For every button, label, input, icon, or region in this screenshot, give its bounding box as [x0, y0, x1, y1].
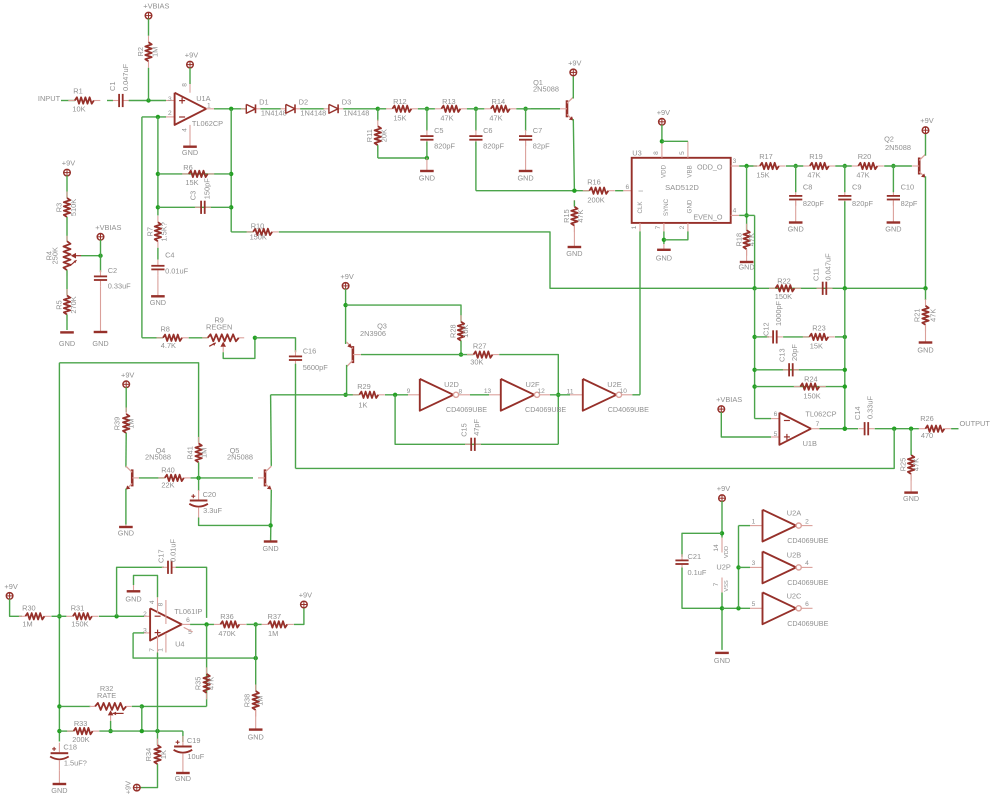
svg-text:U3: U3 [632, 148, 641, 157]
wire [139, 477, 165, 479]
IC U2P power pins [713, 538, 731, 593]
wire [755, 418, 771, 420]
wire [754, 288, 756, 418]
resistor R30 [19, 604, 51, 629]
wire [134, 575, 158, 597]
svg-text:C18: C18 [63, 743, 77, 752]
ground [788, 201, 804, 234]
svg-text:1000pF: 1000pF [774, 300, 783, 326]
power +9V [657, 108, 670, 125]
junction [343, 303, 347, 307]
svg-text:GND: GND [738, 263, 754, 272]
resistor R8 [157, 324, 189, 350]
svg-text:2N5088: 2N5088 [533, 85, 559, 94]
svg-text:U2P: U2P [716, 562, 730, 571]
pin 8 U3 [661, 141, 663, 158]
pin [623, 190, 631, 192]
wire [345, 289, 347, 344]
svg-text:R34: R34 [144, 748, 153, 762]
capacitor C13 [778, 344, 799, 377]
svg-text:GND: GND [656, 253, 672, 262]
capacitor C21 [675, 552, 706, 577]
junction [229, 172, 233, 176]
svg-text:47K: 47K [440, 113, 453, 122]
junction [146, 98, 150, 102]
power +9V [123, 781, 140, 794]
resistor R2 [136, 36, 159, 68]
power +9V [62, 159, 75, 176]
junction [474, 107, 478, 111]
svg-text:R23: R23 [812, 323, 826, 332]
junction [752, 384, 756, 388]
svg-text:+9V: +9V [920, 116, 933, 125]
svg-text:47K: 47K [856, 170, 869, 179]
power +9V [121, 370, 134, 387]
svg-text:GND: GND [125, 594, 141, 603]
svg-text:4: 4 [733, 208, 737, 215]
wire [214, 108, 246, 110]
pin 4 U3 [731, 214, 740, 216]
wire [117, 567, 164, 616]
svg-text:GND: GND [182, 148, 198, 157]
junction [57, 704, 61, 708]
junction [114, 614, 118, 618]
junction [196, 476, 200, 480]
wire [844, 201, 846, 288]
junction [662, 238, 666, 242]
svg-text:D3: D3 [342, 98, 351, 107]
capacitor C6 [469, 126, 504, 151]
svg-text:1M: 1M [199, 448, 208, 458]
capacitor C2 [94, 266, 131, 290]
junction [156, 115, 160, 119]
svg-text:0.33uF: 0.33uF [108, 281, 131, 290]
resistor R27 [467, 342, 499, 367]
svg-text:R31: R31 [71, 604, 85, 613]
svg-text:14: 14 [713, 544, 720, 552]
wire [157, 248, 159, 260]
resistor R6 [182, 163, 214, 187]
wire [279, 232, 755, 288]
pin 7 U3 [663, 223, 665, 232]
svg-text:1N4148: 1N4148 [300, 108, 326, 117]
svg-text:GND: GND [51, 786, 67, 795]
junction [892, 427, 896, 431]
wire [230, 109, 232, 232]
wire [378, 108, 386, 110]
wire [739, 566, 751, 568]
wire [100, 240, 102, 273]
pin 2 U3 [687, 223, 689, 232]
svg-text:GND: GND [788, 225, 804, 234]
svg-text:R40: R40 [161, 466, 175, 475]
pin [408, 394, 420, 396]
wire [255, 624, 257, 691]
svg-text:GND: GND [517, 174, 533, 183]
junction [459, 352, 463, 356]
wire [460, 341, 462, 355]
svg-text:1N4148: 1N4148 [261, 108, 287, 117]
power +9V [299, 591, 312, 608]
wire [158, 206, 231, 208]
svg-text:5: 5 [679, 151, 686, 155]
ground [903, 474, 919, 503]
svg-text:TL061IP: TL061IP [174, 607, 202, 616]
inverter U2B [763, 552, 802, 584]
junction [843, 286, 847, 290]
wire [133, 632, 144, 634]
wire [142, 705, 207, 707]
capacitor C15 [460, 418, 481, 450]
pin 4 [189, 125, 191, 139]
wire [475, 109, 477, 131]
resistor R5 [54, 289, 77, 321]
junction [108, 729, 112, 733]
resistor R20 [852, 152, 884, 179]
svg-text:1N4148: 1N4148 [344, 108, 370, 117]
wire [721, 501, 723, 538]
op-amp U1A [175, 93, 207, 125]
svg-text:C11: C11 [811, 268, 820, 281]
svg-text:7: 7 [149, 648, 156, 652]
wire [951, 428, 958, 430]
junction [57, 729, 61, 733]
svg-text:U2D: U2D [444, 380, 459, 389]
svg-text:+9V: +9V [717, 484, 730, 493]
svg-text:GND: GND [175, 774, 191, 783]
wire [157, 731, 159, 745]
svg-text:20pF: 20pF [790, 344, 799, 361]
svg-text:47K: 47K [929, 309, 938, 322]
pin 5 comp U4 [184, 627, 193, 632]
junction [425, 156, 429, 160]
capacitor C5 [420, 126, 455, 151]
wire [142, 116, 166, 118]
junction [572, 189, 576, 193]
ground [566, 226, 582, 258]
ground [738, 249, 754, 272]
svg-text:6: 6 [805, 601, 809, 608]
wire [66, 175, 68, 198]
junction [843, 368, 847, 372]
wire [377, 109, 379, 121]
wire [99, 730, 183, 732]
capacitor C9 [838, 183, 873, 208]
wire [59, 705, 90, 707]
svg-text:2N5088: 2N5088 [885, 143, 911, 152]
pin [750, 607, 763, 609]
junction [744, 213, 748, 217]
wire [844, 288, 846, 428]
wire [125, 387, 127, 412]
svg-text:GND: GND [419, 174, 435, 183]
svg-text:+VBIAS: +VBIAS [716, 395, 742, 404]
wire [884, 165, 912, 167]
wire [81, 255, 101, 257]
svg-text:0.01uF: 0.01uF [165, 267, 188, 276]
resistor R23 [803, 323, 835, 350]
wire [739, 165, 757, 167]
capacitor C4 [151, 250, 188, 275]
capacitor C19 [174, 736, 205, 764]
junction [204, 622, 208, 626]
capacitor C7 [519, 126, 550, 151]
svg-text:1M: 1M [256, 695, 265, 705]
resistor R12 [386, 97, 418, 122]
svg-text:2N5088: 2N5088 [227, 452, 253, 461]
pin [811, 428, 819, 430]
wire [754, 215, 756, 288]
wire [59, 363, 198, 443]
wire [499, 355, 558, 445]
svg-text:R27: R27 [473, 342, 487, 351]
ground [175, 764, 191, 784]
svg-text:1K: 1K [358, 400, 367, 409]
wire [755, 336, 769, 338]
transistor Q5 [227, 446, 271, 490]
resistor R7 [145, 216, 168, 248]
svg-text:+9V: +9V [121, 370, 134, 379]
svg-text:4: 4 [805, 560, 809, 567]
wire [470, 394, 489, 396]
svg-text:VDD: VDD [660, 164, 667, 178]
power +VBIAS [95, 223, 121, 240]
svg-text:C12: C12 [762, 322, 771, 336]
svg-text:3: 3 [733, 158, 737, 165]
capacitor C8 [789, 183, 824, 208]
svg-text:INPUT: INPUT [38, 94, 61, 103]
svg-text:R21: R21 [912, 309, 921, 323]
svg-text:R22: R22 [777, 277, 791, 286]
pin [750, 566, 763, 568]
junction [156, 172, 160, 176]
resistor R1 [68, 87, 100, 114]
junction [140, 704, 144, 708]
svg-text:EVEN_O: EVEN_O [693, 213, 723, 222]
svg-text:5: 5 [752, 601, 756, 608]
svg-text:R13: R13 [442, 97, 456, 106]
wire [59, 730, 73, 732]
wire [66, 217, 68, 241]
wire [795, 166, 797, 192]
svg-text:R16: R16 [587, 177, 601, 186]
svg-text:2N5088: 2N5088 [145, 452, 171, 461]
wire [107, 100, 113, 102]
svg-text:GND: GND [917, 345, 933, 354]
svg-text:CLK: CLK [637, 201, 644, 214]
svg-text:0.047uF: 0.047uF [121, 63, 130, 91]
wire [682, 568, 722, 609]
wire [786, 165, 803, 167]
inverter U2F [501, 379, 540, 411]
ground [150, 276, 166, 307]
wire [910, 429, 912, 455]
svg-text:270K: 270K [69, 296, 78, 313]
svg-text:ODD_O: ODD_O [697, 163, 723, 172]
junction [843, 335, 847, 339]
svg-text:0.33uF: 0.33uF [865, 396, 874, 419]
op-amp U4 [150, 608, 182, 640]
power +9V [340, 272, 353, 289]
junction [57, 614, 61, 618]
svg-text:+9V: +9V [657, 108, 670, 117]
wire [632, 394, 640, 396]
wire [615, 190, 623, 192]
svg-text:47K: 47K [912, 458, 921, 471]
svg-text:150K: 150K [803, 392, 820, 401]
resistor R16 [583, 177, 615, 204]
svg-text:D2: D2 [299, 98, 308, 107]
svg-text:C16: C16 [303, 347, 317, 356]
svg-text:8: 8 [653, 151, 660, 155]
pin [622, 394, 633, 396]
wire [129, 100, 166, 102]
wire [385, 394, 408, 396]
resistor R31 [66, 604, 98, 629]
svg-text:10uF: 10uF [187, 752, 204, 761]
capacitor C14 [853, 396, 874, 436]
svg-text:SYNC: SYNC [663, 198, 670, 216]
wire [475, 142, 477, 191]
power +9V [568, 58, 581, 75]
pin [166, 100, 175, 102]
pin [206, 108, 214, 110]
svg-text:U2C: U2C [787, 591, 802, 600]
svg-text:R1: R1 [73, 87, 82, 96]
svg-text:47K: 47K [807, 170, 820, 179]
junction [736, 565, 740, 569]
wire [198, 462, 200, 491]
wire [176, 567, 207, 618]
wire [819, 428, 858, 430]
wire [892, 166, 894, 192]
ground [656, 244, 672, 262]
svg-text:U2A: U2A [787, 509, 801, 518]
junction [98, 254, 102, 258]
junction [229, 107, 233, 111]
svg-text:C6: C6 [483, 126, 492, 135]
wire [663, 231, 665, 244]
junction [794, 164, 798, 168]
wire [395, 395, 558, 445]
ground [262, 542, 278, 554]
wire [295, 364, 297, 469]
svg-text:R41: R41 [185, 446, 194, 460]
wire [875, 428, 919, 430]
diode D1 [241, 98, 287, 118]
wire [516, 108, 560, 110]
svg-text:3: 3 [168, 96, 172, 103]
svg-text:1M: 1M [22, 620, 32, 629]
svg-text:510K: 510K [69, 199, 78, 216]
wire [199, 518, 271, 526]
svg-text:1.5uF?: 1.5uF? [64, 759, 87, 768]
capacitor C11 [811, 253, 832, 295]
wire [270, 490, 273, 542]
junction [376, 107, 380, 111]
wire [300, 108, 324, 110]
ground [92, 286, 108, 348]
wire [132, 705, 142, 707]
resistor R10 [247, 222, 279, 242]
wire [682, 533, 722, 557]
wire [270, 395, 273, 466]
svg-text:47pF: 47pF [472, 418, 481, 435]
wire [573, 119, 574, 191]
wire [925, 288, 927, 300]
transistor Q2 [884, 135, 926, 178]
svg-text:C8: C8 [803, 183, 812, 192]
wire [142, 337, 163, 339]
svg-text:GND: GND [92, 339, 108, 348]
svg-text:I: I [638, 190, 645, 192]
svg-text:250K: 250K [51, 247, 60, 264]
svg-text:470: 470 [921, 431, 933, 440]
svg-text:150pF: 150pF [202, 178, 211, 199]
transistor Q4 [126, 446, 171, 490]
pin [144, 632, 150, 634]
junction [736, 606, 740, 610]
junction [155, 729, 159, 733]
svg-text:VSS: VSS [724, 580, 730, 592]
wire [844, 166, 846, 192]
capacitor C20 [189, 490, 222, 518]
svg-text:15K: 15K [756, 170, 769, 179]
power +9V [717, 484, 730, 501]
junction [156, 205, 160, 209]
wire [418, 108, 435, 110]
svg-text:C20: C20 [203, 490, 217, 499]
junction [660, 139, 664, 143]
svg-text:13: 13 [484, 388, 492, 395]
svg-text:C19: C19 [187, 736, 201, 745]
wire [426, 142, 428, 159]
junction [254, 656, 258, 660]
svg-text:820pF: 820pF [483, 142, 504, 151]
svg-text:U1A: U1A [196, 94, 210, 103]
wire [231, 231, 253, 233]
svg-text:7: 7 [816, 421, 820, 428]
wire [140, 764, 158, 788]
wire [189, 68, 191, 84]
wire [661, 125, 663, 142]
junction [752, 368, 756, 372]
wire [141, 706, 143, 731]
transistor Q3 [347, 322, 387, 367]
resistor R11 [365, 120, 388, 152]
svg-text:R8: R8 [160, 324, 169, 333]
svg-text:+9V: +9V [185, 51, 198, 60]
capacitor C18 [50, 743, 87, 771]
wire [739, 214, 754, 216]
svg-text:R2: R2 [136, 47, 145, 56]
svg-text:R20: R20 [858, 152, 872, 161]
svg-text:1: 1 [157, 648, 164, 652]
svg-text:C3: C3 [189, 191, 198, 200]
power +VBIAS [143, 2, 169, 19]
junction [425, 107, 429, 111]
wire [61, 100, 75, 102]
resistor R18 [734, 224, 756, 256]
wire [755, 287, 926, 289]
junction [843, 427, 847, 431]
wire [550, 394, 570, 396]
svg-text:R24: R24 [804, 375, 818, 384]
svg-text:C2: C2 [108, 266, 117, 275]
pin 3 U3 [731, 165, 740, 167]
svg-text:+9V: +9V [299, 591, 312, 600]
wire [110, 721, 112, 731]
